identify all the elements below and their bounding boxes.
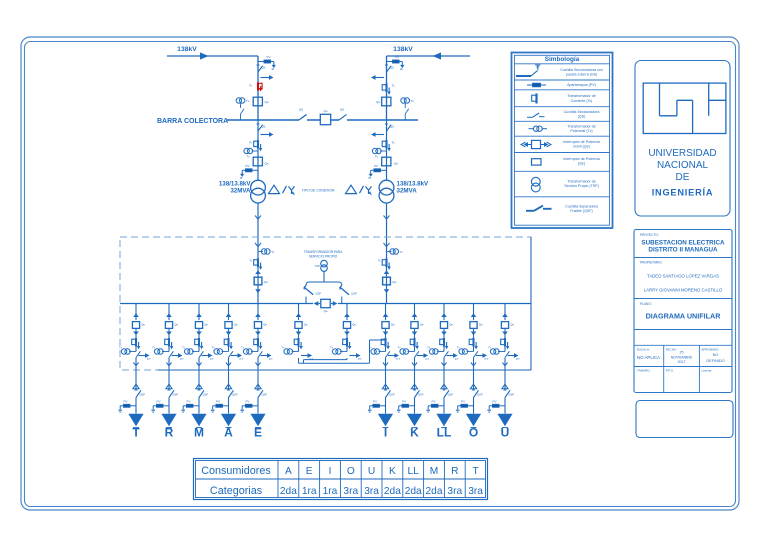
breaker Qe left riser <box>254 277 268 285</box>
wire feeder x385.5 mid <box>385 329 387 351</box>
svg-text:Qe: Qe <box>204 322 208 326</box>
svg-text:P.T: P.T <box>455 357 459 361</box>
PT Tv left riser <box>258 249 275 254</box>
label transformador para servicio propio <box>304 250 344 259</box>
T2 delta-wye symbol <box>346 185 373 195</box>
wire feeder x505.0 drop <box>504 304 506 321</box>
arrester PV feeder x444.0 <box>426 399 444 412</box>
svg-text:TIPO DE CONEXION: TIPO DE CONEXION <box>302 189 335 193</box>
label lamina <box>701 369 712 373</box>
legend symbol PV <box>527 83 546 87</box>
fuse switch QSF feeder x169.0 <box>168 390 179 398</box>
consumers table column dividers <box>278 461 465 498</box>
legend text TSP <box>564 179 599 188</box>
label consumer O <box>469 425 478 439</box>
disconnect feeder x136.0 <box>136 351 140 357</box>
arrow branch line 1 <box>261 75 274 80</box>
delta feeder x199.0 <box>196 384 202 389</box>
label aprobado <box>701 348 719 352</box>
svg-text:QSF: QSF <box>477 392 483 396</box>
consumers table letter LL <box>408 466 420 477</box>
svg-text:NACIONAL: NACIONAL <box>657 160 709 171</box>
svg-text:Qe: Qe <box>323 309 327 313</box>
svg-text:Qe: Qe <box>391 322 395 326</box>
chevron feeder x414.5 exit <box>412 363 417 366</box>
fuse switch QSF feeder x444.0 <box>443 390 454 398</box>
svg-text:INGENIERÍA: INGENIERÍA <box>652 186 714 197</box>
fuse switch QSF1 <box>304 286 322 304</box>
disconnect feeder x169.0 <box>169 351 173 357</box>
wire feeder x298.5 drop <box>298 304 300 321</box>
svg-text:1ra: 1ra <box>302 486 317 497</box>
consumers table letter K <box>389 466 396 477</box>
svg-text:Potencial (Tv): Potencial (Tv) <box>570 129 592 133</box>
label INGENIERIA <box>652 186 714 197</box>
wire line 1 drop <box>257 56 259 120</box>
svg-text:Tv: Tv <box>411 99 415 103</box>
svg-text:E: E <box>306 466 313 477</box>
svg-text:P.T: P.T <box>147 357 151 361</box>
chevron left riser mid <box>255 270 261 274</box>
svg-text:Qe: Qe <box>352 322 356 326</box>
delta feeder x444.0 <box>441 384 447 389</box>
svg-text:(QS): (QS) <box>578 115 586 119</box>
consumers table category 3ra 9 <box>447 486 462 497</box>
CT Tc feeder x136.0 <box>132 338 141 349</box>
legend outer box <box>512 53 613 229</box>
delta feeder x228.5 <box>225 384 231 389</box>
svg-text:T: T <box>132 425 140 439</box>
svg-text:32MVA: 32MVA <box>230 188 251 195</box>
svg-text:P.T: P.T <box>180 357 184 361</box>
delta feeder x414.5 <box>411 384 417 389</box>
CT Tc feeder x258.0 <box>254 338 263 349</box>
svg-text:QSF: QSF <box>389 392 395 396</box>
wire feeder x385.5 drop <box>385 304 387 321</box>
wire feeder x347.0 mid <box>346 329 348 351</box>
wire feeder x136.0 drop <box>135 304 137 321</box>
chevron feeder x228.5 exit <box>226 363 231 366</box>
svg-text:O: O <box>347 466 355 477</box>
disconnect feeder x444.0 <box>444 351 448 357</box>
enclosure switchgear room <box>120 237 531 370</box>
fuse switch QSF feeder x228.5 <box>227 390 238 398</box>
chevron feeder x199.0 exit <box>196 363 201 366</box>
consumers table category 2da 7 <box>405 486 422 497</box>
consumers table letter I <box>329 466 332 477</box>
arrow branch right bay <box>371 132 384 137</box>
wire feeder x228.5 mid <box>228 329 230 351</box>
load arrow feeder x199.0 <box>191 414 206 428</box>
breaker Qe feeder x169.0 <box>165 322 178 329</box>
svg-text:Qe: Qe <box>394 162 398 166</box>
arrester PV1 <box>258 55 276 69</box>
label tadeo santiago lopez vargas <box>647 274 719 279</box>
bus barra colectora <box>227 119 418 121</box>
svg-text:Qe: Qe <box>376 100 380 104</box>
label 138kV line 1 <box>177 46 197 53</box>
CT Tc feeder x228.5 <box>224 338 233 349</box>
svg-text:Interruptor de Potencia: Interruptor de Potencia <box>563 157 600 161</box>
CT Tc feeder x385.5 <box>381 338 390 349</box>
svg-text:Servicio Propio (TSP): Servicio Propio (TSP) <box>564 184 599 188</box>
fuse switch QSF feeder x473.5 <box>472 390 483 398</box>
svg-text:Cuchilla Seccionadora: Cuchilla Seccionadora <box>564 110 600 114</box>
arrester PV feeder x414.5 <box>397 399 415 412</box>
svg-text:Fusible (QSF): Fusible (QSF) <box>570 209 592 213</box>
chevron feeder x136.0 up <box>133 313 139 317</box>
svg-text:Qe: Qe <box>174 322 178 326</box>
label consumer LL <box>437 425 452 439</box>
svg-text:O: O <box>469 425 478 439</box>
svg-text:Qe: Qe <box>234 322 238 326</box>
svg-text:3ra: 3ra <box>343 486 358 497</box>
label no definido <box>706 353 724 363</box>
label proyecto <box>640 233 659 237</box>
chevron feeder x347.0 down <box>344 332 350 336</box>
arrow PT feeder x385.5 <box>388 353 401 361</box>
consumers table category 1ra 2 <box>302 486 317 497</box>
svg-text:M: M <box>194 425 204 439</box>
legend symbol Qe movil <box>521 140 551 148</box>
svg-text:P.T: P.T <box>397 357 401 361</box>
legend symbol Tc <box>532 94 537 104</box>
svg-text:Qe: Qe <box>420 322 424 326</box>
svg-text:2017: 2017 <box>678 360 686 364</box>
arrow PT feeder x169.0 <box>172 353 185 361</box>
svg-text:Qe: Qe <box>263 322 267 326</box>
PT Tv feeder x258.0 <box>241 346 258 355</box>
label consumer M <box>194 425 204 439</box>
titleblock revision box <box>636 401 733 438</box>
wire feeder x136.0 mid <box>135 329 137 351</box>
consumers table category 2da 6 <box>384 486 401 497</box>
PT Tv4 <box>372 148 386 158</box>
wire feeder x385.5 tail <box>385 398 387 414</box>
legend symbol Tv <box>529 126 548 131</box>
wire feeder x258.0 tail <box>257 398 259 414</box>
svg-text:móvil (Qe): móvil (Qe) <box>573 145 590 149</box>
svg-text:QSF: QSF <box>173 392 179 396</box>
arrow PT feeder x199.0 <box>202 353 215 361</box>
label consumer I <box>384 425 387 439</box>
consumers table letter E <box>306 466 313 477</box>
PT Tv feeder x347.0 <box>330 346 347 355</box>
breaker Qe feeder x298.5 <box>295 322 308 329</box>
arrow branch left bay <box>261 132 274 137</box>
tie disconnect QS4 <box>339 108 347 120</box>
svg-text:QSF: QSF <box>262 392 268 396</box>
svg-text:TRANSFORMADOR PARA: TRANSFORMADOR PARA <box>304 250 344 254</box>
svg-text:Qe: Qe <box>141 322 145 326</box>
svg-text:Corriente (Tc): Corriente (Tc) <box>571 99 593 103</box>
svg-text:LL: LL <box>408 466 420 477</box>
legend row dividers <box>515 64 610 197</box>
svg-text:DISTRITO II MANAGUA: DISTRITO II MANAGUA <box>648 247 718 254</box>
label Tc3 <box>249 141 253 145</box>
wire feeder x473.5 tail <box>473 398 475 414</box>
svg-text:3ra: 3ra <box>468 486 483 497</box>
svg-text:Qe: Qe <box>323 109 327 113</box>
consumers table outer <box>194 459 488 500</box>
consumers table category 2da 1 <box>280 486 297 497</box>
wire TSP drop <box>323 271 325 282</box>
breaker Qe feeder x385.5 <box>382 322 395 329</box>
label consumer E <box>254 425 262 439</box>
wire feeder x169.0 drop <box>168 304 170 321</box>
PT Tv feeder x505.0 <box>488 346 505 355</box>
disconnect QS5 <box>256 124 265 131</box>
label NACIONAL <box>657 160 709 171</box>
svg-text:R: R <box>451 466 458 477</box>
label 138kV line 2 <box>393 46 413 53</box>
chevron feeder x228.5 up <box>226 313 232 317</box>
svg-text:PV: PV <box>395 55 399 59</box>
svg-text:U: U <box>501 425 510 439</box>
breaker Qe feeder x414.5 <box>411 322 424 329</box>
chevron feeder x385.5 exit <box>383 363 388 366</box>
svg-text:I: I <box>384 425 387 439</box>
svg-text:E: E <box>254 425 262 439</box>
breaker Qe feeder x347.0 <box>343 322 356 329</box>
PT Tv feeder x199.0 <box>182 346 199 355</box>
load arrow feeder x169.0 <box>161 414 176 428</box>
svg-text:PV: PV <box>402 399 406 403</box>
wire feeder x199.0 drop <box>198 304 200 321</box>
legend text Qe <box>563 157 600 166</box>
svg-text:U: U <box>368 466 375 477</box>
svg-text:2da: 2da <box>280 486 297 497</box>
enclosure right wall <box>530 237 532 370</box>
label UNIVERSIDAD <box>648 148 716 159</box>
svg-text:Tc: Tc <box>249 84 253 88</box>
enclosure bottom wall <box>158 369 531 371</box>
chevron feeder x444.0 up <box>441 313 447 317</box>
svg-text:Consumidores: Consumidores <box>201 465 271 477</box>
label fecha valor <box>671 351 693 364</box>
svg-text:PLANO:: PLANO: <box>640 302 652 306</box>
wire feeder x414.5 mid <box>414 329 416 351</box>
PT Tv3 <box>244 148 258 158</box>
transformer T1 <box>251 180 266 203</box>
wire feeder x414.5 tail <box>414 398 416 414</box>
wire feeder x228.5 drop <box>228 304 230 321</box>
arrow PT feeder x444.0 <box>447 353 460 361</box>
svg-text:DIAGRAMA UNIFILAR: DIAGRAMA UNIFILAR <box>646 312 722 321</box>
consumers table letter M <box>430 466 439 477</box>
svg-text:P.T: P.T <box>210 357 214 361</box>
titleblock table columns <box>664 345 700 392</box>
wire right bay <box>386 120 388 181</box>
consumers table letter T <box>472 466 478 477</box>
svg-text:TAMAÑO:: TAMAÑO: <box>637 368 651 373</box>
wire T2 secondary <box>386 203 388 304</box>
load arrow feeder x136.0 <box>128 414 143 428</box>
disconnect QS6 <box>385 124 394 131</box>
svg-text:QSF: QSF <box>351 291 357 295</box>
PT Tv feeder x169.0 <box>152 346 169 355</box>
chevron T1 lead <box>255 216 261 220</box>
svg-text:Interruptor de Potencia: Interruptor de Potencia <box>563 140 600 144</box>
chevron feeder x414.5 up <box>412 313 418 317</box>
arrow PT feeder x298.5 <box>301 353 314 361</box>
svg-text:BARRA COLECTORA: BARRA COLECTORA <box>157 118 228 125</box>
fuse switch QSF feeder x505.0 <box>504 390 515 398</box>
chevron right riser upper <box>384 243 390 247</box>
wire feeder x444.0 tail <box>443 398 445 414</box>
breaker Qe feeder x228.5 <box>225 322 238 329</box>
svg-text:2da: 2da <box>384 486 401 497</box>
wire feeder x258.0 lower <box>257 358 259 391</box>
chevron feeder x505.0 up <box>502 313 508 317</box>
svg-text:PROYECTO:: PROYECTO: <box>640 233 659 237</box>
legend title Simbologia <box>545 56 580 63</box>
load arrow feeder x414.5 <box>407 414 422 428</box>
CT Tc feeder x473.5 <box>469 338 478 349</box>
svg-text:QSF: QSF <box>203 392 209 396</box>
svg-text:UNIVERSIDAD: UNIVERSIDAD <box>648 148 716 159</box>
UNI logo frame <box>643 83 726 133</box>
svg-text:Categorias: Categorias <box>210 485 263 497</box>
CT Tc right riser <box>382 259 391 270</box>
svg-text:K: K <box>410 425 419 439</box>
svg-text:PV: PV <box>266 55 270 59</box>
svg-text:P.T: P.T <box>240 357 244 361</box>
svg-text:LARRY GIOVANNI MORENO CASTILLO: LARRY GIOVANNI MORENO CASTILLO <box>644 288 723 293</box>
fuse switch QSF feeder x258.0 <box>257 390 268 398</box>
svg-text:M: M <box>430 466 439 477</box>
svg-text:QS: QS <box>340 108 344 112</box>
svg-text:Transformador de: Transformador de <box>567 94 595 98</box>
arrow incoming line 1 <box>200 52 209 59</box>
PT Tv2 <box>401 98 415 120</box>
CT Tc3 <box>254 140 263 151</box>
wire T1 secondary <box>257 203 259 304</box>
svg-text:K: K <box>389 466 396 477</box>
label consumer A <box>224 425 233 439</box>
consumers table inner <box>196 461 486 498</box>
legend text Qe movil <box>563 140 600 149</box>
wire feeder x505.0 mid <box>504 329 506 351</box>
legend text PV <box>567 83 596 87</box>
svg-text:Tc: Tc <box>392 141 396 145</box>
chevron feeder x298.5 down <box>296 332 302 336</box>
arrow PT feeder x347.0 <box>350 353 363 361</box>
CT Tc feeder x414.5 <box>410 338 419 349</box>
legend text Tc <box>567 94 595 103</box>
breaker Qe5 <box>382 157 399 166</box>
svg-text:QS: QS <box>390 124 394 128</box>
arrow branch line 2 <box>371 75 384 80</box>
breaker Qe feeder x136.0 <box>132 322 145 329</box>
svg-text:FECHA:: FECHA: <box>666 348 677 352</box>
PT Tv1 <box>236 98 250 120</box>
load arrow feeder x473.5 <box>466 414 481 428</box>
disconnect feeder x505.0 <box>505 351 509 357</box>
disconnect feeder x258.0 <box>258 351 262 357</box>
breaker Qe1 <box>253 97 269 106</box>
label Categorias <box>210 485 263 497</box>
consumers table letter R <box>451 466 458 477</box>
label plano <box>640 302 652 306</box>
label subestacion electrica <box>641 240 725 247</box>
svg-text:PV: PV <box>186 399 190 403</box>
svg-text:Qe: Qe <box>392 280 396 284</box>
chevron feeder x199.0 down <box>196 332 202 336</box>
wire feeder x199.0 mid <box>198 329 200 351</box>
svg-text:NO: NO <box>713 353 719 357</box>
svg-text:DEFINIDO: DEFINIDO <box>706 359 724 363</box>
legend text Tv <box>567 124 595 133</box>
legend text QS <box>564 110 600 119</box>
svg-text:Cuchilla Seccionadora con: Cuchilla Seccionadora con <box>560 68 603 72</box>
chevron feeder x136.0 exit <box>133 363 138 366</box>
CT Tc feeder x199.0 <box>195 338 204 349</box>
label Tc right riser <box>378 259 381 263</box>
svg-text:PV: PV <box>156 399 160 403</box>
chevron feeder x258.0 exit <box>255 363 260 366</box>
fuse switch QSF2 <box>340 286 358 304</box>
svg-text:Qe: Qe <box>304 322 308 326</box>
svg-text:P.P.O.: P.P.O. <box>666 369 674 373</box>
svg-text:Qe: Qe <box>265 162 269 166</box>
svg-text:QSF: QSF <box>316 291 322 295</box>
svg-text:A: A <box>224 425 233 439</box>
label distrito II managua <box>648 247 718 254</box>
arrester PV feeder x228.5 <box>211 399 229 412</box>
svg-text:I: I <box>329 466 332 477</box>
svg-text:(Qe): (Qe) <box>578 162 585 166</box>
PT Tv feeder x444.0 <box>427 346 444 355</box>
svg-text:138kV: 138kV <box>393 46 413 53</box>
wire feeder x473.5 mid <box>473 329 475 351</box>
wire feeder x505.0 lower <box>504 358 506 391</box>
svg-text:Qe: Qe <box>264 280 268 284</box>
consumers table letter U <box>368 466 375 477</box>
disconnect feeder x414.5 <box>415 351 419 357</box>
PT Tv feeder x385.5 <box>369 346 386 355</box>
label consumer R <box>165 425 174 439</box>
chevron feeder x298.5 up <box>296 313 302 317</box>
disconnect feeder x199.0 <box>199 351 203 357</box>
PT Tv feeder x414.5 <box>398 346 415 355</box>
label consumer K <box>410 425 419 439</box>
svg-text:138/13.8kV: 138/13.8kV <box>219 181 252 188</box>
label consumer U <box>501 425 510 439</box>
wire TSP header <box>306 282 342 286</box>
arrester PV feeder x258.0 <box>240 399 258 412</box>
wire feeder x136.0 tail <box>135 398 137 414</box>
svg-text:QSF: QSF <box>140 392 146 396</box>
label Tc left riser <box>249 259 252 263</box>
svg-text:NO APLICA: NO APLICA <box>637 355 660 360</box>
consumers table category 2da 8 <box>426 486 443 497</box>
svg-text:Lámina:: Lámina: <box>701 369 712 373</box>
load arrow feeder x444.0 <box>436 414 451 428</box>
delta feeder x505.0 <box>502 384 508 389</box>
fuse switch QSF feeder x414.5 <box>413 390 424 398</box>
svg-text:3ra: 3ra <box>447 486 462 497</box>
UNI logo strokes <box>660 83 726 133</box>
breaker Qe feeder x473.5 <box>470 322 483 329</box>
chevron feeder x385.5 up <box>383 313 389 317</box>
label T2 rating <box>397 181 430 195</box>
CT Tc feeder x505.0 <box>501 338 510 349</box>
chevron feeder x444.0 down <box>441 332 447 336</box>
wire PT link upper <box>304 358 348 363</box>
svg-text:Qe: Qe <box>265 100 269 104</box>
label Consumidores <box>201 465 271 477</box>
